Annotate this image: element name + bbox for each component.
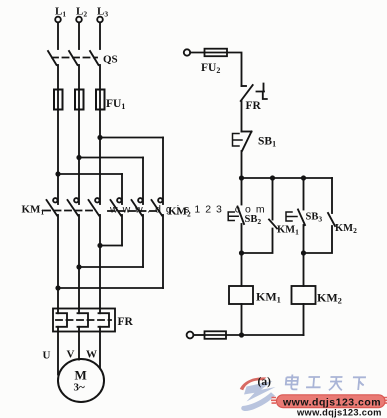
contactor KM1 main contacts xyxy=(22,198,100,216)
terminal control bottom xyxy=(187,332,194,339)
wire KM1 pole3 down to FR xyxy=(99,215,101,309)
watermark logo zigzag xyxy=(244,381,276,402)
wire FR to motor V xyxy=(78,332,80,360)
wire branch L1 to KM2 left pole xyxy=(55,171,122,204)
wire SB3 to node2 xyxy=(303,225,305,253)
wire bus to SB3 xyxy=(303,178,305,210)
contactor KM2 main contacts xyxy=(108,198,191,218)
wire terminal to bottom fuse xyxy=(193,334,204,336)
fuse FU2 xyxy=(201,49,227,75)
terminal control top xyxy=(184,49,190,55)
wire QS to FU1 pole1 xyxy=(57,65,59,90)
wire SB1 to top bus xyxy=(241,151,243,178)
wire bus to SB2 xyxy=(241,178,243,205)
wire KM2 right pole crossover to phase1 xyxy=(55,215,163,291)
svg-text:QS: QS xyxy=(103,54,118,66)
coil KM2 xyxy=(292,286,342,306)
aux contact KM2 (NO holding) xyxy=(328,213,357,235)
svg-text:W: W xyxy=(86,349,97,361)
wire FU2 to FR contact xyxy=(227,53,242,87)
wire branch L2 to KM2 middle pole xyxy=(76,155,143,204)
watermark logo swoosh xyxy=(240,377,267,390)
wire QS to FU1 pole3 xyxy=(99,65,101,90)
wire QS to FU1 pole2 xyxy=(78,65,80,90)
svg-text:(a): (a) xyxy=(258,376,272,388)
wire branch L3 to KM2 right pole xyxy=(97,135,163,204)
svg-text:FR: FR xyxy=(118,316,134,328)
wire node1 to coil KM1 xyxy=(241,253,243,286)
wire coil KM2 to bottom bus xyxy=(303,304,305,335)
wire KM2 left pole crossover to phase3 xyxy=(97,215,122,248)
wire L2 down to QS xyxy=(78,23,80,49)
wire FR contact to SB1 xyxy=(241,101,243,132)
svg-text:FR: FR xyxy=(246,100,262,112)
watermark text diangong xyxy=(285,375,366,391)
wire KM1 pole2 down to FR xyxy=(78,215,80,309)
watermark logo red bars xyxy=(271,398,387,404)
wire coil KM1 to bottom bus xyxy=(241,304,243,335)
wire bottom bus xyxy=(226,332,304,337)
start button SB2 (NO) xyxy=(228,207,261,227)
fuse FU1 xyxy=(54,90,125,112)
aux contact KM1 (NO holding) xyxy=(269,220,299,237)
wire terminal to FU2 xyxy=(190,52,204,54)
svg-text:www.dqjs123.com: www.dqjs123.com xyxy=(282,396,381,408)
wire bus to KM2 aux xyxy=(331,178,333,213)
svg-text:M: M xyxy=(75,368,87,383)
wire KM1 aux to node1 xyxy=(242,229,273,254)
wire L3 down to QS xyxy=(99,23,101,49)
motor M xyxy=(58,359,104,402)
wire bus to KM1 aux xyxy=(272,178,274,220)
wire KM2 aux to node2 xyxy=(304,226,333,253)
svg-text:www.dqjs123.com: www.dqjs123.com xyxy=(296,408,382,418)
coil KM1 xyxy=(229,286,281,305)
wire FU1 to KM1 contacts xyxy=(57,110,59,205)
wire FR to motor U xyxy=(57,332,59,375)
wire SB2 to node1 xyxy=(241,224,243,253)
wire KM1 pole1 down to FR xyxy=(57,215,59,309)
wire FR to motor W xyxy=(99,332,101,369)
watermark logo swoosh lower xyxy=(241,392,275,411)
node2 junction xyxy=(301,250,306,255)
switch QS xyxy=(48,51,118,66)
svg-text:V: V xyxy=(67,349,75,361)
node1 junction xyxy=(239,250,244,255)
node L3 xyxy=(97,6,108,23)
fuse bottom xyxy=(205,331,227,339)
svg-text:3~: 3~ xyxy=(74,382,86,394)
start button SB3 (NO) xyxy=(286,210,322,226)
svg-text:www.dgjs123.com: www.dgjs123.com xyxy=(109,204,270,216)
node L2 xyxy=(76,6,87,23)
thermal relay FR heaters xyxy=(53,309,134,332)
wire top bus xyxy=(239,175,332,180)
thermal contact FR (NC) xyxy=(241,84,267,113)
wire L1 down to QS xyxy=(57,23,59,49)
wire KM2 middle pole crossover to phase2 xyxy=(76,215,143,270)
node L1 xyxy=(55,6,66,23)
stop button SB1 (NC) xyxy=(233,132,277,152)
wire node2 to coil KM2 xyxy=(303,253,305,286)
watermark banner xyxy=(277,395,386,418)
svg-text:U: U xyxy=(43,350,51,362)
